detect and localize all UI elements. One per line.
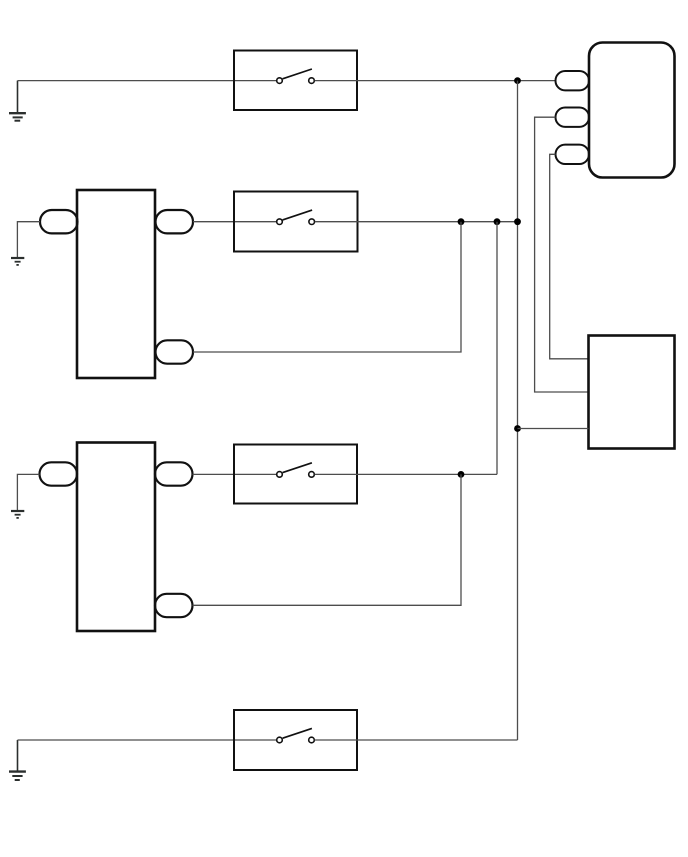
wire: node B1 down to K1 right bottom terminal	[193, 222, 461, 352]
switch SW4 (bottom row)	[234, 710, 357, 770]
wire: SW2 to bus (node B)	[315, 221, 518, 223]
ground GND2 (second row, small)	[11, 258, 24, 265]
wire: node C to load M1 (lower input)	[518, 428, 589, 430]
junction dot: node A (bus top)	[514, 77, 521, 84]
ground GND3 (third row, small)	[11, 511, 24, 518]
K1 right bottom terminal	[156, 340, 194, 363]
wire: GND1 to switch SW1	[18, 80, 277, 82]
junction dot: node B2	[494, 218, 501, 225]
J1 pin 1 terminal	[556, 71, 590, 90]
ground GND4 (bottom left)	[9, 740, 26, 780]
wire: J1 pin 3 to load M1 (top input)	[550, 154, 589, 358]
K1 left terminal	[40, 210, 78, 233]
ground GND1 (top left)	[9, 81, 26, 121]
junction dot: node D	[458, 471, 465, 478]
wire: K2 left terminal to GND3	[17, 474, 39, 510]
switch SW1 (top row)	[234, 51, 357, 111]
wire: node D down to K2 right bottom terminal	[193, 474, 462, 605]
wire: K2 right top terminal to switch SW3	[193, 473, 277, 475]
switch SW2 (second row)	[234, 192, 358, 252]
K2 right top terminal	[155, 462, 193, 485]
K2 right bottom terminal	[155, 594, 193, 617]
wire: K1 left terminal to GND2	[17, 222, 40, 257]
K2 left terminal	[40, 462, 78, 485]
load M1 (middle right box)	[589, 336, 675, 449]
junction dot: node B1	[458, 218, 465, 225]
block K1 (second row)	[77, 190, 155, 378]
wire: GND4 to switch SW4	[18, 739, 277, 741]
wire: node B2 down to third row wire	[496, 222, 498, 475]
block K2 (third row)	[77, 443, 155, 632]
wire: SW4 to bus bottom corner	[315, 739, 518, 741]
wire: bus vertical (node A down to bottom row)	[517, 81, 519, 740]
junction dot: node B3 (on bus)	[514, 218, 521, 225]
switch SW3 (third row)	[234, 445, 357, 504]
junction dot: node C (bus to M1)	[514, 425, 521, 432]
wire: K1 right top terminal to switch SW2	[193, 221, 276, 223]
connector J1 (top right)	[589, 43, 675, 178]
K1 right top terminal	[156, 210, 194, 233]
wire: SW1 to connector J1 pin 1	[315, 80, 556, 82]
wire: J1 pin 2 to load M1 (upper input)	[535, 117, 589, 392]
J1 pin 2 terminal	[556, 108, 590, 127]
J1 pin 3 terminal	[556, 145, 590, 164]
wire: SW3 to node B2 riser	[315, 473, 497, 475]
